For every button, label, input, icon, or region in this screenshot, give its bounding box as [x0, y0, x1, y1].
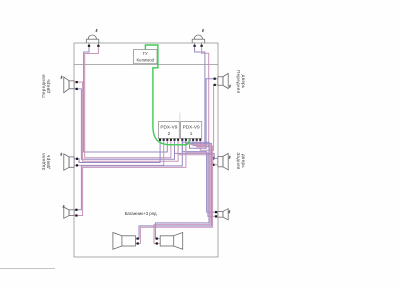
svg-text:PDX-V9: PDX-V9 [160, 124, 177, 129]
svg-text:дверь: дверь [46, 154, 51, 168]
svg-text:Задняя: Задняя [236, 152, 241, 170]
svg-text:ГУ: ГУ [143, 51, 148, 56]
svg-text:дверь: дверь [46, 79, 51, 93]
svg-text:1: 1 [190, 131, 193, 136]
svg-text:дверь: дверь [241, 154, 246, 168]
svg-text:2: 2 [168, 131, 171, 136]
svg-text:Kenwood: Kenwood [136, 57, 154, 62]
svg-text:Передняя: Передняя [236, 70, 241, 94]
svg-text:дверь: дверь [241, 75, 246, 89]
svg-text:Багажник+3 ряд: Багажник+3 ряд [125, 211, 157, 216]
svg-text:PDX-V9: PDX-V9 [183, 124, 200, 129]
